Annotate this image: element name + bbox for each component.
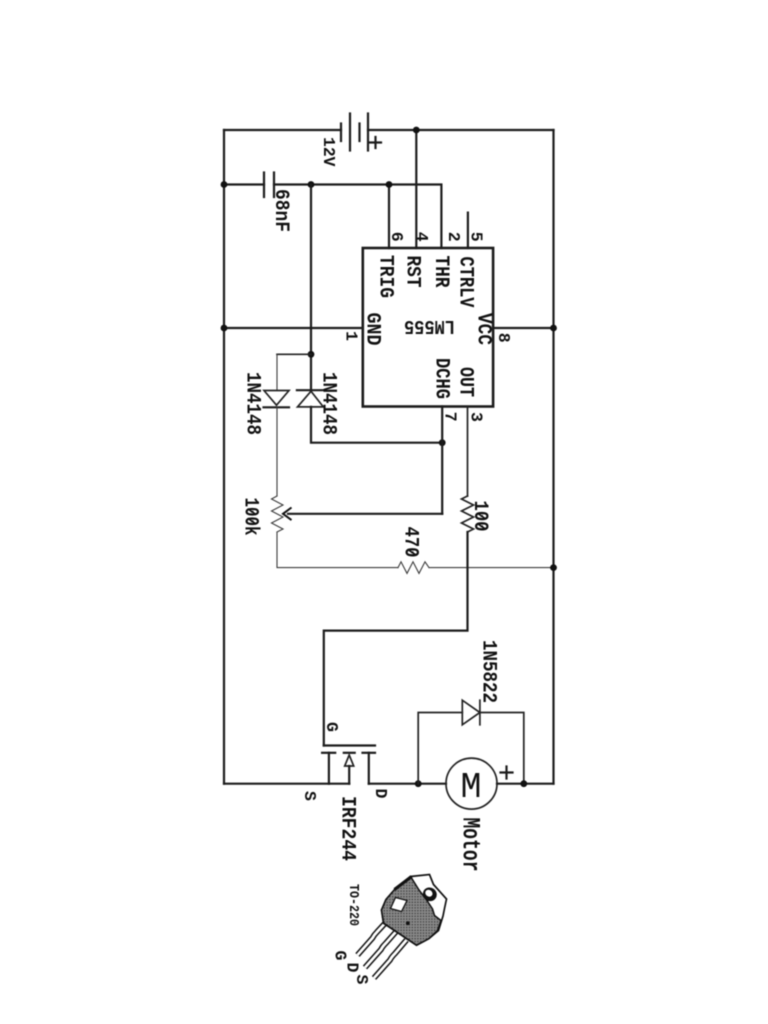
wire cap to pin2 bbox=[274, 185, 441, 249]
diode D3 1N5822 flyback bbox=[418, 700, 524, 784]
svg-text:D: D bbox=[371, 789, 390, 799]
transistor Q1 body arrow bbox=[345, 755, 354, 784]
transistor Q1 drain stub bbox=[368, 753, 370, 784]
svg-text:OUT: OUT bbox=[454, 367, 477, 397]
transistor Q1 gate bar bbox=[324, 744, 375, 746]
wire source to left rail bbox=[224, 783, 349, 785]
potentiometer wiper arrow bbox=[283, 508, 292, 521]
node VCC right rail junction bbox=[550, 325, 557, 332]
svg-text:S: S bbox=[300, 791, 319, 801]
package notch bbox=[391, 898, 408, 912]
node 470 right rail junction bbox=[550, 564, 557, 571]
svg-text:CTRLV: CTRLV bbox=[454, 257, 477, 308]
svg-text:G: G bbox=[322, 722, 341, 732]
node diode A branch junction bbox=[308, 351, 315, 358]
lead G bbox=[358, 919, 390, 955]
transistor Q1 source stub bbox=[328, 753, 330, 784]
svg-text:1N4148: 1N4148 bbox=[317, 372, 340, 435]
lead D bbox=[365, 930, 398, 968]
svg-text:470: 470 bbox=[399, 527, 422, 558]
svg-text:VCC: VCC bbox=[472, 313, 495, 345]
svg-text:7: 7 bbox=[441, 412, 460, 422]
package silhouette tab bbox=[382, 875, 447, 946]
package top edge bbox=[395, 877, 412, 890]
transistor Q1 channel segments bbox=[322, 752, 375, 754]
wire pin5 stub bbox=[467, 213, 469, 248]
wire 68nF rail bbox=[224, 183, 264, 185]
slashed zeros of 100 bbox=[477, 513, 486, 529]
slashed zero of 470 bbox=[408, 549, 417, 555]
node flyback left junction bbox=[415, 780, 422, 787]
battery plus label bbox=[370, 137, 381, 148]
wire GND pin1 to left rail bbox=[224, 327, 363, 329]
svg-text:LM555: LM555 bbox=[404, 315, 455, 337]
resistor R3 100 bbox=[462, 496, 474, 532]
capacitor C1 68nF bbox=[264, 173, 274, 198]
svg-text:M: M bbox=[461, 767, 482, 808]
svg-text:100k: 100k bbox=[239, 498, 262, 536]
svg-text:DCHG: DCHG bbox=[430, 358, 453, 399]
wire pot bottom to 470 bbox=[277, 532, 398, 568]
node top rail RST junction bbox=[413, 127, 420, 134]
node 68nF left junction bbox=[221, 181, 228, 188]
node pin7 junction bbox=[439, 439, 446, 446]
svg-text:3: 3 bbox=[467, 412, 486, 422]
wire wiper to pin7 bbox=[288, 513, 442, 515]
svg-text:GND: GND bbox=[361, 313, 384, 346]
motor M1 circle bbox=[446, 758, 497, 809]
wire 100 to gate bbox=[324, 532, 468, 746]
svg-text:S: S bbox=[352, 975, 371, 985]
package body hatched bbox=[382, 877, 442, 945]
svg-text:1N5822: 1N5822 bbox=[477, 640, 500, 703]
wire pin7 down bbox=[441, 407, 443, 514]
wire 470 to right rail bbox=[429, 567, 554, 569]
svg-text:4: 4 bbox=[412, 232, 431, 242]
wire diode A cathode to pot bbox=[276, 407, 278, 496]
svg-text:12V: 12V bbox=[319, 137, 338, 167]
svg-text:RST: RST bbox=[401, 256, 424, 288]
node GND left rail junction bbox=[221, 325, 228, 332]
node diode branch junction bbox=[308, 181, 315, 188]
wire VCC pin8 to right rail bbox=[493, 327, 553, 329]
svg-text:IRF244: IRF244 bbox=[336, 796, 359, 861]
svg-text:1N4148: 1N4148 bbox=[241, 372, 264, 435]
svg-text:Motor: Motor bbox=[456, 818, 485, 872]
svg-text:6: 6 bbox=[387, 232, 406, 242]
svg-text:2: 2 bbox=[444, 232, 463, 242]
wire OUT pin3 down bbox=[467, 407, 469, 497]
node flyback right junction bbox=[520, 780, 527, 787]
package mounting hole bbox=[420, 885, 439, 904]
motor plus label bbox=[501, 767, 513, 779]
wire diode B anode to pin7 bbox=[311, 407, 442, 443]
svg-text:TO-220: TO-220 bbox=[345, 884, 360, 926]
svg-text:G: G bbox=[331, 951, 350, 961]
battery B1 12v bbox=[341, 114, 368, 151]
wire RST to VCC rail bbox=[415, 130, 417, 248]
slashed zeros of 100k bbox=[248, 509, 257, 525]
svg-text:TRIG: TRIG bbox=[374, 255, 397, 298]
wire pin6 drop bbox=[388, 185, 390, 249]
svg-text:THR: THR bbox=[429, 256, 452, 288]
wire top rail left segment bbox=[224, 129, 341, 131]
wire drain to motor bbox=[369, 783, 446, 785]
wire motor to right rail bbox=[497, 783, 554, 785]
diode D2 1N4148 right bbox=[297, 390, 324, 407]
wire right rail bbox=[552, 130, 554, 784]
svg-text:5: 5 bbox=[466, 232, 485, 242]
TO-220 package drawing bbox=[331, 875, 447, 985]
node pin6 junction bbox=[386, 181, 393, 188]
svg-text:100: 100 bbox=[468, 501, 491, 532]
svg-text:68nF: 68nF bbox=[269, 189, 292, 232]
resistor R2 470 bbox=[398, 562, 429, 574]
lead S bbox=[374, 940, 407, 978]
diode D1 1N4148 left bbox=[264, 391, 290, 408]
wire branch to diode A bbox=[277, 353, 311, 355]
svg-text:D: D bbox=[343, 963, 362, 973]
package dot bbox=[406, 921, 410, 925]
potentiometer R1 100k bbox=[272, 496, 284, 532]
wire top rail right segment bbox=[368, 129, 554, 131]
svg-text:8: 8 bbox=[494, 333, 513, 343]
svg-text:1: 1 bbox=[342, 331, 361, 341]
op-amp U1 LM555 body bbox=[363, 248, 493, 407]
wire left rail bbox=[223, 130, 225, 784]
wire THR net down to diodes bbox=[310, 185, 312, 391]
